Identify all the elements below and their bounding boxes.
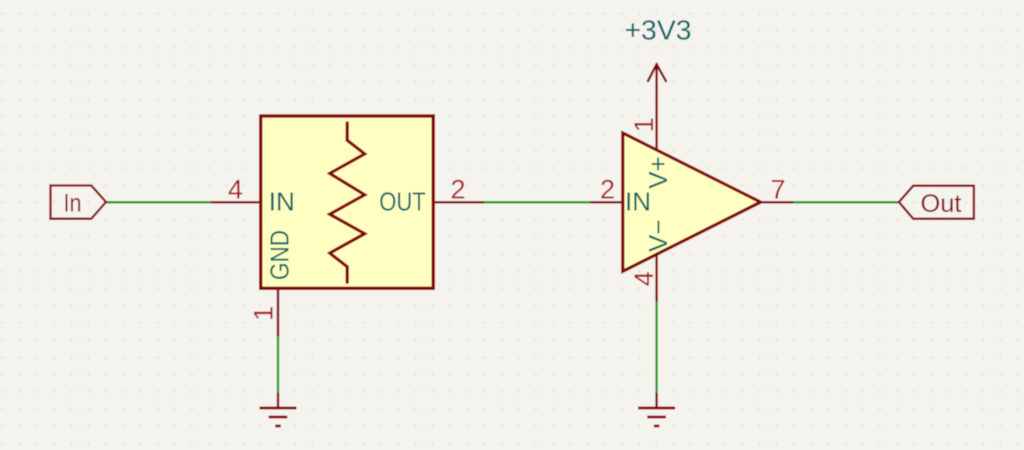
svg-text:7: 7 (770, 175, 785, 205)
U1 pin 7 (output, right) (761, 201, 794, 203)
svg-text:V+: V+ (643, 156, 673, 189)
U1 pin 4 (V-, bottom) (655, 255, 657, 303)
ground symbol GND2 (below U1) (638, 393, 675, 427)
U1 pin 1 (V+, top) (655, 114, 657, 149)
ground symbol GND1 (below R1) (260, 393, 297, 427)
svg-text:V−: V− (643, 219, 673, 252)
op-amp U1 body (triangle) (623, 133, 761, 271)
svg-text:2: 2 (600, 175, 615, 205)
wire from In label to R1 IN pin (106, 201, 211, 203)
svg-text:IN: IN (269, 187, 295, 217)
svg-text:1: 1 (249, 306, 279, 321)
svg-text:1: 1 (629, 117, 659, 132)
resistor R1 body (box symbol) (261, 116, 434, 288)
svg-text:4: 4 (629, 271, 659, 286)
R1 pin 1 (GND, bottom) (277, 288, 279, 336)
U1 pin 2 (input, left) (590, 201, 623, 203)
svg-text:In: In (64, 190, 82, 218)
svg-text:OUT: OUT (379, 187, 426, 217)
wire from R1 OUT pin to U1 IN pin (484, 201, 589, 203)
svg-text:GND: GND (265, 230, 295, 280)
svg-text:2: 2 (450, 175, 465, 205)
svg-text:IN: IN (625, 187, 651, 217)
power symbol +3V3 (arrow) (648, 64, 667, 114)
svg-text:+3V3: +3V3 (625, 14, 692, 45)
wire from U1 V- pin to ground (655, 302, 657, 393)
hierarchical label In (51, 186, 107, 219)
wire from R1 GND pin to ground (277, 337, 279, 393)
svg-text:4: 4 (228, 175, 243, 205)
R1 pin 4 (IN, left) (211, 201, 261, 203)
hierarchical label Out (899, 186, 974, 219)
R1 pin 2 (OUT, right) (433, 201, 484, 203)
wire from U1 output pin to Out label (794, 201, 899, 203)
svg-text:Out: Out (921, 190, 962, 218)
